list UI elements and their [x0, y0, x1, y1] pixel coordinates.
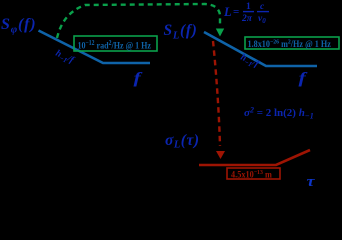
right plot spectrum line: [204, 32, 317, 66]
svg-text:σL(τ): σL(τ): [165, 132, 199, 151]
bottom allan deviation line: [199, 150, 310, 165]
svg-text:σ2 = 2 ln(2) h−1: σ2 = 2 ln(2) h−1: [244, 106, 314, 121]
green arrowhead: [216, 29, 224, 37]
svg-text:1: 1: [246, 2, 251, 12]
svg-text:τ: τ: [307, 173, 316, 190]
svg-text:4.5x10−13 m: 4.5x10−13 m: [231, 169, 273, 179]
green value box right: [245, 37, 339, 49]
red dashed transfer curve: [213, 41, 220, 146]
svg-text:Sφ(f): Sφ(f): [1, 16, 36, 36]
svg-text:2π: 2π: [241, 14, 253, 24]
red arrowhead: [216, 151, 225, 159]
svg-text:=: =: [233, 6, 239, 18]
left plot spectrum line: [39, 31, 151, 64]
green dashed transfer curve: [57, 4, 220, 38]
svg-text:L: L: [223, 5, 232, 19]
svg-text:SL(f): SL(f): [164, 22, 198, 42]
green value box left: [74, 36, 157, 51]
red value box: [227, 168, 280, 179]
